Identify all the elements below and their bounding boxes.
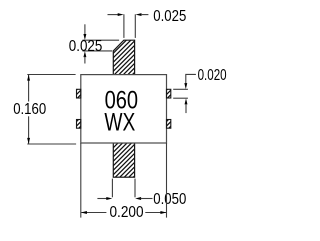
dim top 0.025 right arrow (136, 13, 142, 16)
body outline (81, 75, 167, 143)
svg-text:0.050: 0.050 (153, 191, 186, 208)
dim chamfer 0.025 up arrow (83, 51, 86, 57)
dim height 0.160 up arrow (27, 75, 30, 81)
pad right upper (167, 89, 171, 98)
dim terminal 0.050 extension lines (111, 179, 113, 198)
dim width 0.200 dimension line left with arrow (81, 212, 106, 214)
pad left upper (77, 89, 81, 98)
svg-text:0.200: 0.200 (110, 204, 144, 221)
dim terminal 0.050 right arrow (135, 197, 141, 200)
dim pad 0.020 extension lines (173, 88, 188, 90)
dim chamfer 0.025 down arrow (84, 24, 86, 35)
dim pad 0.020 leader and down arrow (186, 74, 196, 83)
dim top 0.025 extension lines (123, 14, 125, 38)
pad left lower (77, 120, 81, 129)
svg-text:0.025: 0.025 (153, 8, 186, 25)
svg-text:0.160: 0.160 (13, 101, 46, 118)
svg-text:0.020: 0.020 (198, 67, 227, 84)
dim terminal 0.050 left arrow (97, 198, 107, 200)
dim pad 0.020 up arrow (185, 98, 188, 104)
dim width 0.200 extension lines (80, 143, 82, 218)
dim chamfer 0.025 extension lines (83, 39, 120, 41)
svg-text:0.025: 0.025 (69, 38, 103, 55)
bottom terminal (hatched) (113, 143, 134, 177)
svg-text:WX: WX (104, 110, 135, 137)
dim height 0.160 down arrow (27, 138, 30, 144)
dim top 0.025 left arrow (108, 14, 119, 16)
top terminal (hatched, chamfered top-left) (113, 40, 134, 74)
dim height 0.160 extension lines (27, 74, 75, 76)
dim width 0.200 dimension line right with arrow (145, 212, 166, 214)
pad right lower (167, 120, 171, 129)
dim height 0.160 dimension line (28, 75, 30, 102)
